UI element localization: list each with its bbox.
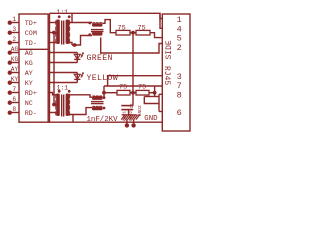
wire T1 sec top to choke L1 winding A bbox=[67, 22, 92, 24]
pin AY stub wire bbox=[12, 72, 20, 74]
L1 winding B polarity dot bbox=[88, 33, 91, 36]
wire RD+ to T2 primary top bbox=[48, 93, 58, 95]
junction choke L2-A / R3 bbox=[102, 91, 106, 95]
wire AG to green LED anode bbox=[48, 52, 77, 54]
svg-text:AY: AY bbox=[11, 66, 19, 73]
J2 internal divider line bbox=[19, 48, 48, 50]
junction center-tap bus / T2 center tap bbox=[52, 103, 56, 107]
wire center tap T2 bbox=[54, 104, 59, 106]
svg-text:TD-: TD- bbox=[25, 40, 37, 48]
svg-text:SIDE: SIDE bbox=[165, 40, 174, 59]
wire RD- to T2 primary bottom bbox=[48, 112, 58, 114]
wire C2 to chassis ground bbox=[128, 110, 130, 115]
wire to RJ45 pin 3 bbox=[108, 76, 163, 86]
wire R4 right bbox=[149, 92, 155, 94]
pin 3 stub wire bbox=[12, 32, 20, 34]
pin 7 terminal dot bbox=[8, 91, 12, 95]
wire bracket lower bbox=[144, 97, 159, 104]
T2 core line left bbox=[61, 95, 63, 117]
svg-text:75: 75 bbox=[138, 24, 146, 32]
pin AG terminal dot bbox=[8, 51, 12, 55]
wire AY to yellow LED anode bbox=[48, 72, 77, 74]
wire T2 sec top to choke L2 winding A bbox=[67, 95, 92, 97]
junction R4 / pin7 riser bbox=[153, 91, 157, 95]
L2 winding B polarity dot bbox=[103, 107, 106, 110]
yellow LED D2 cathode bar bbox=[74, 78, 80, 80]
T2 primary polarity dot bbox=[58, 90, 61, 93]
svg-text:NC: NC bbox=[25, 100, 33, 108]
junction dot on T1 secondary bottom net bbox=[73, 43, 77, 47]
T1 primary winding bbox=[56, 20, 60, 45]
pin 3 terminal dot bbox=[8, 31, 12, 35]
yellow LED D2 vertical lead bbox=[76, 73, 78, 83]
pin KG stub wire bbox=[12, 62, 20, 64]
junction R1-R2 midpoint bbox=[131, 31, 135, 35]
wire R2 to RJ45 pin 5 bbox=[150, 33, 162, 38]
shield pin GND1 dot bbox=[125, 123, 129, 127]
ground bus wire bbox=[48, 121, 162, 123]
wire choke L1-A to R1 bbox=[103, 20, 117, 33]
wire choke L1-B to RJ45 pin 2 bbox=[101, 37, 163, 53]
T1 core line right bbox=[63, 21, 65, 45]
svg-text:7: 7 bbox=[12, 86, 16, 93]
svg-text:1:1: 1:1 bbox=[57, 9, 69, 16]
T2 secondary polarity dot bbox=[68, 90, 71, 93]
wire top net to RJ45 pin 1 bbox=[50, 13, 163, 18]
wire TD+ to T1 primary top bbox=[48, 22, 58, 24]
resistor R2 bbox=[136, 30, 150, 35]
wire KY to yellow LED cathode bbox=[48, 82, 77, 84]
svg-text:KY: KY bbox=[25, 80, 33, 88]
svg-text:KY: KY bbox=[11, 76, 19, 83]
green LED D1 light arrows bbox=[81, 53, 84, 58]
resistor R4 bbox=[136, 90, 149, 95]
T2 primary winding bbox=[56, 94, 60, 117]
capacitor C2 top plate bbox=[121, 105, 133, 107]
svg-text:75: 75 bbox=[118, 24, 126, 32]
wire COM to T1 primary center tap bbox=[48, 32, 58, 34]
choke L1 winding A bbox=[92, 23, 103, 26]
svg-text:8: 8 bbox=[12, 106, 16, 113]
pin 2 terminal dot bbox=[8, 41, 12, 45]
svg-text:2: 2 bbox=[177, 43, 182, 53]
T1 core line left bbox=[61, 21, 63, 45]
wire vertical to pins 8 and 6 bbox=[158, 94, 160, 111]
wire vertical bus along box right edge bbox=[49, 13, 51, 122]
wire RJ45 pin 8 stub bbox=[159, 93, 162, 95]
L2 core line lower bbox=[91, 103, 104, 105]
svg-text:KG: KG bbox=[11, 56, 19, 63]
wire bracket upper bbox=[144, 96, 159, 98]
green LED D1 cathode bar bbox=[74, 58, 80, 60]
wire R3 to R4 bbox=[130, 92, 136, 94]
wire TD- to T1 primary bottom bbox=[48, 42, 58, 44]
svg-text:KG: KG bbox=[25, 60, 33, 68]
choke L2 winding B bbox=[92, 107, 103, 110]
svg-text:RD+: RD+ bbox=[25, 90, 37, 98]
L2 winding A polarity dot bbox=[103, 96, 106, 99]
wire center-tap bus vertical COM to T2 bbox=[53, 33, 55, 105]
junction COM / center-tap bus bbox=[52, 31, 56, 35]
pin AY terminal dot bbox=[8, 71, 12, 75]
svg-text:8: 8 bbox=[177, 90, 182, 100]
wire KG to green LED cathode bbox=[48, 62, 77, 64]
green LED D1 vertical lead bbox=[76, 53, 78, 63]
wire choke L2-A riser bbox=[103, 86, 105, 97]
pin 1 terminal dot bbox=[8, 21, 12, 25]
svg-text:3: 3 bbox=[12, 26, 16, 33]
wire T1 sec bottom to choke L1 winding B bbox=[72, 36, 92, 46]
pin 1 stub wire bbox=[12, 22, 20, 24]
wire R1 to R2 bbox=[130, 32, 136, 34]
wire T1 sec bottom jog bbox=[67, 43, 72, 46]
pin 6 stub wire bbox=[12, 102, 20, 104]
svg-text:C2: C2 bbox=[131, 103, 135, 109]
T2 core line right bbox=[63, 95, 65, 117]
L1 core line upper bbox=[91, 29, 104, 31]
wire T2 sec bottom to ground bus bbox=[67, 115, 73, 123]
wire to RJ45 pin 7 bbox=[104, 85, 162, 87]
shield pin GND2 dot bbox=[131, 123, 135, 127]
wire top net to RJ45 pin 4 bbox=[160, 13, 162, 28]
wire junction to R3 bbox=[104, 92, 117, 94]
wire T2 sec bottom to choke L2 winding B bbox=[73, 108, 92, 115]
wire riser pin7 tap bbox=[154, 86, 156, 97]
svg-text:6: 6 bbox=[12, 96, 16, 103]
choke L1 winding B bbox=[92, 32, 103, 35]
svg-text:RD-: RD- bbox=[25, 110, 37, 118]
pin 8 stub wire bbox=[12, 112, 20, 114]
svg-text:GND2: GND2 bbox=[130, 110, 134, 121]
svg-text:6: 6 bbox=[177, 108, 182, 118]
svg-text:GND1: GND1 bbox=[123, 110, 127, 121]
pin KY terminal dot bbox=[8, 81, 12, 85]
pin 6 terminal dot bbox=[8, 101, 12, 105]
connector J2 chip-side box bbox=[19, 14, 48, 122]
L2 core line upper bbox=[91, 101, 104, 103]
svg-text:GND2: GND2 bbox=[137, 105, 143, 116]
wire RJ45 pin 6 stub bbox=[159, 111, 162, 113]
chassis ground hatched symbol bbox=[121, 115, 140, 120]
wire T1 secondary top riser bbox=[71, 13, 73, 22]
junction R3-R4 midpoint bbox=[131, 91, 135, 95]
svg-text:RJ45: RJ45 bbox=[162, 66, 171, 85]
svg-text:AG: AG bbox=[25, 50, 33, 58]
green LED D1 triangle bbox=[74, 54, 80, 59]
choke L2 winding A bbox=[92, 97, 103, 100]
wire termination midpoint bus to capacitor bbox=[132, 33, 134, 106]
T1 primary polarity dot bbox=[58, 15, 61, 18]
yellow LED D2 triangle bbox=[74, 74, 80, 79]
pin AG stub wire bbox=[12, 52, 20, 54]
svg-text:1: 1 bbox=[12, 16, 16, 23]
L1 winding A polarity dot bbox=[88, 22, 91, 25]
pin 2 stub wire bbox=[12, 42, 20, 44]
pin 8 terminal dot bbox=[8, 111, 12, 115]
shield pin GND1 wire bbox=[126, 119, 128, 124]
T2 secondary winding bbox=[66, 94, 70, 117]
pin 7 stub wire bbox=[12, 92, 20, 94]
resistor R3 bbox=[117, 90, 130, 95]
svg-text:AY: AY bbox=[25, 70, 33, 78]
connector J1 RJ45 box bbox=[162, 14, 190, 131]
svg-text:TD+: TD+ bbox=[25, 20, 37, 28]
capacitor C2 bottom plate bbox=[121, 109, 133, 111]
T1 secondary winding bbox=[66, 20, 70, 45]
yellow LED D2 light arrows bbox=[81, 73, 84, 78]
pin KG terminal dot bbox=[8, 61, 12, 65]
svg-text:2: 2 bbox=[12, 36, 16, 43]
svg-text:AG: AG bbox=[11, 46, 19, 53]
T1 secondary polarity dot bbox=[68, 15, 71, 18]
pin KY stub wire bbox=[12, 82, 20, 84]
resistor R1 bbox=[116, 30, 130, 35]
L1 core line lower bbox=[91, 31, 104, 33]
svg-text:GREEN: GREEN bbox=[87, 54, 113, 63]
shield pin GND2 wire bbox=[133, 119, 135, 124]
svg-text:COM: COM bbox=[25, 30, 37, 38]
